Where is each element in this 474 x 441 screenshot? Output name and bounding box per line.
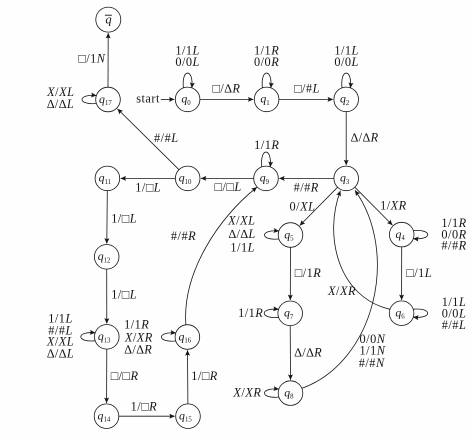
- state q13 circle: [95, 325, 120, 350]
- svg-text:1/1L: 1/1L: [230, 240, 255, 254]
- self-loop on q4: [413, 230, 427, 238]
- curved edge q8 to q3: [302, 190, 378, 388]
- self-loop on q6: [413, 309, 427, 317]
- state q10 circle: [175, 166, 200, 191]
- svg-text:#/#R: #/#R: [171, 229, 196, 243]
- state q16 circle: [175, 325, 200, 350]
- state q12 circle: [94, 244, 119, 269]
- wire edge q3 to q9: [279, 177, 334, 179]
- svg-text:q: q: [105, 12, 111, 26]
- svg-text:0/0R: 0/0R: [254, 55, 279, 69]
- self-loop on q5: [265, 231, 279, 239]
- wire edge q15 to q16: [187, 350, 189, 404]
- svg-text:1/□L: 1/□L: [111, 287, 137, 301]
- svg-text:#/#L: #/#L: [154, 131, 179, 145]
- svg-text:#/#R: #/#R: [441, 239, 466, 253]
- svg-text:0/XL: 0/XL: [290, 200, 316, 214]
- state q8 circle: [278, 381, 303, 406]
- state q14 circle: [94, 404, 119, 429]
- svg-text:1/□L: 1/□L: [135, 180, 161, 194]
- state q5 circle: [278, 223, 303, 248]
- state q0 circle: [175, 87, 200, 112]
- svg-text:1/□R: 1/□R: [131, 399, 158, 413]
- svg-text:0/0L: 0/0L: [175, 55, 200, 69]
- svg-text:1/□R: 1/□R: [191, 369, 218, 383]
- wire edge q12 to q13: [106, 269, 108, 323]
- state q17 circle: [96, 87, 121, 112]
- svg-text:1/XR: 1/XR: [380, 198, 407, 212]
- state q2 circle: [334, 87, 359, 112]
- wire edge q2 to q3: [345, 112, 347, 165]
- wire edge q3 to q5: [300, 187, 338, 225]
- wire edge q10 to q17: [118, 109, 180, 170]
- wire edge q5 to q7: [289, 247, 291, 300]
- wire edge q4 to q6: [401, 247, 403, 300]
- wire edge q1 to q2: [279, 98, 333, 100]
- svg-text:X/XR: X/XR: [232, 385, 261, 399]
- svg-text:start: start: [136, 91, 160, 105]
- state q3 circle: [334, 166, 359, 191]
- wire edge q11 to q12: [106, 191, 109, 244]
- svg-text:∆/∆L: ∆/∆L: [228, 227, 255, 241]
- svg-text:□/1N: □/1N: [78, 52, 106, 66]
- svg-text:□/#L: □/#L: [294, 81, 320, 95]
- svg-text:□/1L: □/1L: [406, 266, 432, 280]
- svg-text:□/□R: □/□R: [111, 369, 139, 383]
- svg-text:#/#R: #/#R: [294, 180, 319, 194]
- wire edge q3 to q4: [355, 187, 393, 225]
- svg-text:∆/∆R: ∆/∆R: [351, 130, 379, 144]
- svg-text:X/XR: X/XR: [327, 284, 356, 298]
- svg-text:1/□L: 1/□L: [111, 212, 137, 226]
- state q1 circle: [254, 87, 279, 112]
- wire edge q17 to qbar: [107, 33, 109, 87]
- state qbar circle: [96, 7, 121, 32]
- state q15 circle: [176, 404, 201, 429]
- wire edge q0 to q1: [200, 98, 253, 100]
- svg-text:∆/∆R: ∆/∆R: [124, 343, 152, 357]
- state q7 circle: [278, 301, 303, 326]
- wire edge q14 to q15: [119, 415, 175, 417]
- svg-text:1/1R: 1/1R: [124, 317, 149, 331]
- state qbar label: [105, 12, 112, 26]
- wire edge q13 to q14: [106, 349, 108, 403]
- start arrow into q0: [161, 98, 175, 100]
- svg-text:∆/∆L: ∆/∆L: [47, 97, 74, 111]
- self-loop on q1: [262, 73, 271, 88]
- svg-text:#/#N: #/#N: [359, 356, 385, 370]
- curved edge q16 to q9: [186, 187, 257, 325]
- svg-text:#/#L: #/#L: [442, 318, 467, 332]
- svg-text:0/0L: 0/0L: [334, 55, 359, 69]
- svg-text:1/1R: 1/1R: [254, 138, 279, 152]
- svg-text:1/1R: 1/1R: [238, 306, 263, 320]
- svg-text:∆/∆L: ∆/∆L: [47, 347, 74, 361]
- self-loop on q7: [264, 309, 278, 317]
- self-loop on q13: [81, 333, 95, 341]
- self-loop on q17: [82, 95, 96, 103]
- state q4 circle: [389, 222, 414, 247]
- svg-text:□/□L: □/□L: [215, 180, 242, 194]
- svg-text:∆/∆R: ∆/∆R: [294, 346, 322, 360]
- wire edge q9 to q10: [201, 177, 254, 179]
- svg-text:X/XL: X/XL: [227, 214, 255, 228]
- svg-text:□/∆R: □/∆R: [212, 81, 240, 95]
- self-loop on q2: [342, 73, 351, 88]
- self-loop on q0: [183, 73, 192, 88]
- wire edge q7 to q8: [289, 326, 291, 380]
- state q11 circle: [95, 166, 120, 191]
- self-loop on q8: [265, 389, 279, 397]
- self-loop on q9: [262, 152, 271, 167]
- curved edge q6 to q3: [334, 191, 390, 309]
- wire edge q10 to q11: [121, 177, 176, 179]
- svg-text:□/1R: □/1R: [295, 266, 322, 280]
- self-loop on q16: [161, 333, 175, 341]
- state q9 circle: [254, 166, 279, 191]
- state q6 circle: [389, 301, 414, 326]
